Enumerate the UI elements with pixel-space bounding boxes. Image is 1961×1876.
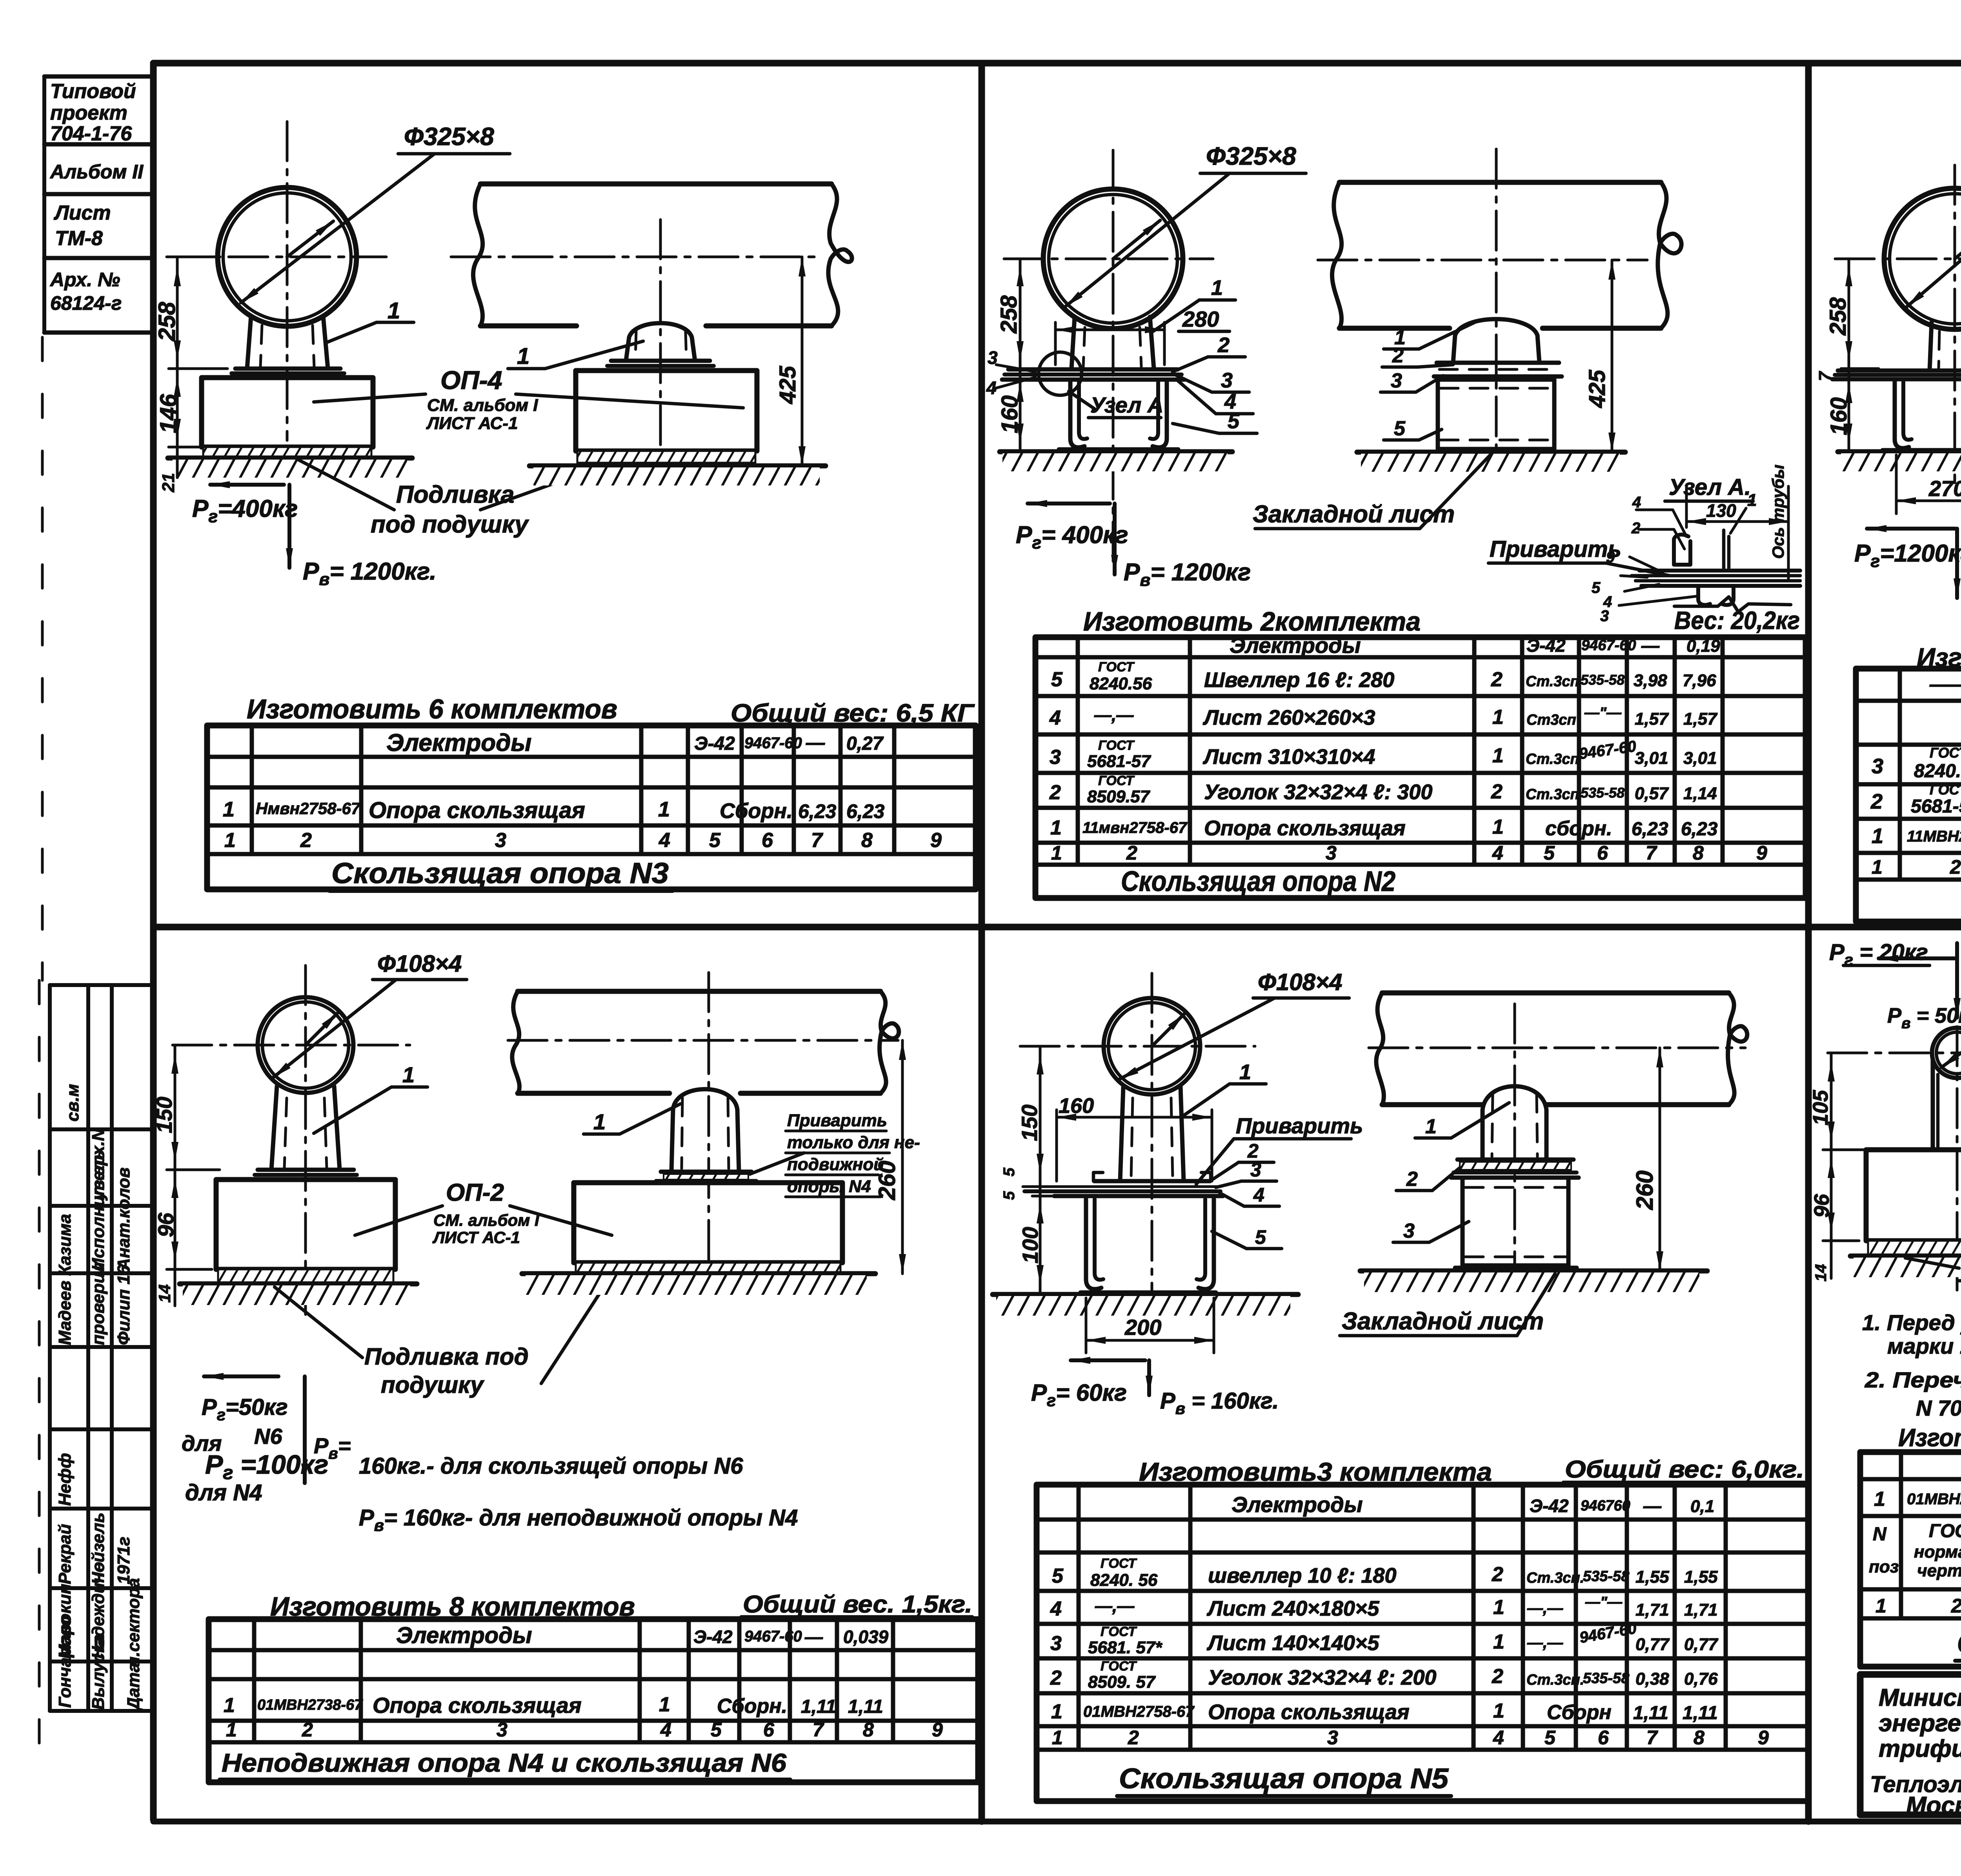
svg-text:———: ——— [1929,673,1961,695]
svg-text:1: 1 [1492,744,1504,767]
dims 150 / 100 [1039,1046,1042,1293]
svg-text:Анат.колов: Анат.колов [114,1167,133,1271]
svg-text:Ф108×4: Ф108×4 [377,951,462,977]
svg-text:3: 3 [495,829,506,852]
forces [204,1374,278,1378]
svg-text:6: 6 [1597,842,1608,864]
svg-text:5: 5 [1228,409,1240,433]
svg-text:Электроды: Электроды [396,1623,532,1648]
svg-text:100: 100 [1018,1227,1042,1263]
svg-text:5: 5 [1592,579,1601,596]
svg-text:3: 3 [1600,607,1609,625]
svg-text:Рекрай: Рекрай [55,1524,75,1584]
svg-text:проект: проект [50,102,127,124]
svg-text:0,77: 0,77 [1684,1635,1719,1654]
tube below [1933,1059,1961,1150]
svg-text:Скользящая опора N2: Скользящая опора N2 [1121,866,1395,897]
svg-text:3: 3 [1050,746,1061,769]
svg-text:704-1-76: 704-1-76 [50,122,132,145]
svg-text:ГОСТ: ГОСТ [1098,738,1135,753]
support pillar [247,316,251,369]
svg-text:3: 3 [1250,1159,1261,1181]
svg-text:—: — [806,733,825,753]
dashed vertical edge line [41,337,44,980]
svg-text:6: 6 [763,1719,775,1741]
svg-text:1,57: 1,57 [1635,709,1669,729]
svg-text:N: N [1873,1524,1887,1545]
plate [1838,369,1961,373]
svg-text:подушку: подушку [381,1372,484,1398]
svg-text:150: 150 [1017,1105,1042,1141]
svg-text:св.м: св.м [63,1084,82,1122]
svg-text:4: 4 [1050,1598,1062,1620]
svg-text:Ф325×8: Ф325×8 [404,122,494,151]
svg-text:ГОСТ: ГОСТ [1929,1521,1961,1542]
svg-text:14: 14 [155,1284,174,1303]
svg-text:Pг=400кг: Pг=400кг [192,495,298,526]
saddle cylinder [1483,1086,1546,1160]
svg-text:9: 9 [930,829,942,852]
svg-text:1: 1 [1051,1700,1062,1723]
svg-text:4: 4 [1632,494,1641,511]
flange w/ weld hatch [661,1170,751,1174]
425 dim [1611,260,1614,452]
svg-text:только для не-: только для не- [787,1133,920,1152]
svg-text:1: 1 [1425,1115,1437,1138]
svg-text:11мвн2758-67: 11мвн2758-67 [1082,819,1188,836]
pipe circle [1104,998,1200,1094]
270 dim [1895,455,1898,514]
svg-text:швеллер 10 ℓ: 180: швеллер 10 ℓ: 180 [1208,1564,1397,1587]
svg-text:1: 1 [1050,816,1062,839]
svg-text:1: 1 [226,1719,237,1741]
svg-text:01МВН2738-67: 01МВН2738-67 [257,1697,363,1713]
pillar legs (short) [1930,322,1932,371]
svg-text:01МВН2758-67: 01МВН2758-67 [1083,1703,1195,1720]
svg-text:2: 2 [1049,781,1061,804]
svg-text:1: 1 [387,298,400,324]
svg-text:6: 6 [1598,1727,1609,1749]
svg-text:Опора скользящая: Опора скользящая [373,1693,582,1718]
svg-text:535-58: 535-58 [1583,1568,1630,1585]
svg-text:1: 1 [1876,1595,1886,1617]
pipe circle [258,997,353,1093]
svg-text:Приварить: Приварить [1490,536,1621,562]
svg-text:Сборн: Сборн [1547,1701,1612,1724]
svg-text:0,19: 0,19 [1686,636,1720,656]
svg-text:—,—: —,— [1094,705,1134,725]
svg-text:1. Перед установкой ОП в полу: 1. Перед установкой ОП в полу сделать на… [1862,1310,1961,1335]
svg-text:5: 5 [1255,1226,1266,1248]
forces [1071,1358,1145,1362]
support block [1438,380,1554,449]
svg-text:Исполнитель: Исполнитель [89,1150,108,1271]
svg-text:4: 4 [1253,1184,1264,1206]
svg-text:Лист 310×310×4: Лист 310×310×4 [1202,745,1375,769]
dim 260 [1659,1048,1661,1271]
svg-text:1: 1 [1239,1060,1251,1084]
svg-text:1: 1 [1747,491,1757,510]
svg-text:1,11: 1,11 [1633,1703,1668,1723]
svg-text:8240. 56: 8240. 56 [1090,1571,1158,1590]
svg-text:6: 6 [762,829,773,852]
grout strip hatched [203,447,371,458]
svg-text:1: 1 [1493,1700,1504,1722]
svg-text:Ст.3сп: Ст.3сп [1526,786,1579,803]
svg-text:2: 2 [1392,344,1404,367]
svg-text:Гончарово: Гончарово [55,1616,75,1708]
svg-text:1,55: 1,55 [1684,1567,1718,1587]
svg-text:Ст.3сп: Ст.3сп [1526,751,1579,767]
svg-text:Подливка под: Подливка под [364,1343,529,1370]
svg-text:ОП-4: ОП-4 [440,365,502,394]
svg-text:Ф108×4: Ф108×4 [1258,969,1342,995]
svg-text:8: 8 [861,829,873,852]
svg-text:энергетики и элек-: энергетики и элек- [1879,1710,1961,1737]
svg-text:Скользящая опора N5: Скользящая опора N5 [1119,1763,1449,1794]
svg-text:1,11: 1,11 [1683,1703,1718,1723]
flange [258,1168,354,1172]
svg-text:Pг= 60кг: Pг= 60кг [1031,1380,1127,1410]
svg-text:200: 200 [1124,1315,1161,1340]
svg-text:2: 2 [1492,1665,1503,1688]
svg-text:Общий вес: 6,0кг.: Общий вес: 6,0кг. [1565,1456,1804,1483]
svg-text:1: 1 [1872,824,1883,848]
svg-text:160: 160 [997,395,1022,433]
svg-text:ЛИСТ АС-1: ЛИСТ АС-1 [426,414,518,433]
svg-text:Дата: Дата [124,1663,143,1711]
base block [576,371,757,451]
panel divider vertical 1 [979,63,985,1821]
svg-text:01МВН2760-67: 01МВН2760-67 [1907,1491,1961,1508]
svg-text:3,98: 3,98 [1634,671,1667,690]
svg-text:—,—: —,— [1095,1596,1135,1616]
svg-text:2: 2 [1050,1667,1062,1689]
svg-text:4: 4 [1049,707,1061,729]
svg-text:270: 270 [1928,476,1961,501]
svg-text:5: 5 [1001,1191,1018,1200]
svg-text:ГОСТ: ГОСТ [1101,1659,1137,1674]
centerlines [167,256,386,258]
svg-text:8509.57: 8509.57 [1087,787,1151,806]
svg-text:Министерство: Министерство [1879,1684,1961,1711]
svg-text:Pв= 160кг- для неподвижной опо: Pв= 160кг- для неподвижной опоры N4 [359,1505,798,1534]
svg-text:Приварить: Приварить [787,1111,887,1130]
panel divider horizontal [153,924,1961,931]
svg-text:3: 3 [1403,1220,1415,1242]
svg-text:ГОСТ: ГОСТ [1930,782,1961,798]
svg-text:0,77: 0,77 [1635,1635,1670,1654]
svg-text:0,57: 0,57 [1635,784,1669,803]
200 dim [1085,1298,1088,1353]
strip boxes [44,75,153,79]
svg-text:258: 258 [996,295,1022,334]
svg-text:5681-57*: 5681-57* [1911,796,1961,817]
svg-text:марки 100: марки 100 [1887,1334,1961,1358]
dims 150/96/14 [174,1045,176,1306]
force arrows [210,483,284,487]
svg-text:105: 105 [1809,1090,1832,1125]
svg-text:21: 21 [159,473,178,493]
svg-text:1: 1 [1492,706,1504,729]
svg-text:Ф325×8: Ф325×8 [1206,142,1296,170]
dims 105/96/14 [1830,1053,1833,1278]
svg-text:258: 258 [1825,297,1851,336]
svg-text:1: 1 [1493,1596,1504,1619]
svg-text:535-58: 535-58 [1581,785,1624,801]
svg-text:ТМ-8: ТМ-8 [55,227,103,250]
ground [993,1292,1298,1297]
svg-text:Э-42: Э-42 [693,1627,733,1647]
svg-text:4: 4 [1493,1727,1504,1749]
svg-text:2: 2 [1950,856,1961,878]
svg-text:1: 1 [659,1693,670,1716]
svg-text:2: 2 [1870,790,1883,813]
svg-text:160кг.- для скользящей опоры N: 160кг.- для скользящей опоры N6 [359,1453,743,1479]
svg-text:0,38: 0,38 [1635,1669,1669,1689]
svg-text:5: 5 [1001,1167,1018,1176]
svg-text:7: 7 [1646,1727,1658,1749]
svg-text:ГОСТ: ГОСТ [1098,660,1135,674]
svg-text:1: 1 [1051,842,1062,864]
svg-text:5: 5 [1052,1565,1064,1587]
svg-text:280: 280 [1182,307,1219,331]
svg-text:под подушку: под подушку [371,511,529,538]
svg-text:Лист: Лист [53,202,111,224]
svg-text:—,—: —,— [1527,1600,1563,1617]
dim 425 [801,257,804,466]
svg-text:опоры N4: опоры N4 [787,1177,871,1196]
svg-text:7: 7 [813,1719,824,1741]
svg-text:Лист 240×180×5: Лист 240×180×5 [1206,1597,1379,1620]
svg-text:3: 3 [1391,369,1402,392]
svg-text:Вылуска: Вылуска [89,1634,108,1710]
svg-text:Э-42: Э-42 [1526,635,1566,656]
pillar legs [1071,317,1075,369]
svg-text:425: 425 [1584,369,1610,408]
svg-text:0,1: 0,1 [1690,1497,1714,1516]
svg-text:Э-42: Э-42 [694,733,735,754]
svg-text:3,01: 3,01 [1683,749,1717,768]
svg-text:Электроды: Электроды [1232,1492,1363,1517]
svg-text:2. Перечень и план расположени: 2. Перечень и план расположения опор смо… [1865,1367,1961,1392]
svg-text:для N4: для N4 [185,1480,262,1505]
svg-text:2: 2 [1492,1563,1503,1586]
svg-text:1: 1 [1493,1631,1504,1653]
svg-text:Скользящая опора N3: Скользящая опора N3 [331,857,669,889]
svg-text:ЛИСТ АС-1: ЛИСТ АС-1 [432,1228,520,1247]
block [1463,1178,1568,1265]
svg-text:6,23: 6,23 [798,800,837,822]
svg-text:N 704- 1- 76 Лист ТМ-2: N 704- 1- 76 Лист ТМ-2 [1916,1396,1961,1420]
svg-text:160: 160 [1826,397,1852,435]
svg-text:Э-42: Э-42 [1530,1496,1569,1516]
svg-text:7: 7 [811,829,823,852]
svg-text:5: 5 [1051,668,1063,691]
svg-text:поз: поз [1869,1557,1899,1576]
svg-text:Ст3сп: Ст3сп [1526,712,1576,728]
svg-text:1: 1 [1874,1488,1885,1511]
pipe circle [1043,189,1183,329]
svg-text:1,11: 1,11 [848,1696,883,1717]
top plates [1008,367,1178,372]
svg-text:—"—: —"— [1584,705,1622,721]
svg-text:СМ. альбом I: СМ. альбом I [427,396,538,415]
saddle [671,1089,739,1172]
svg-text:2: 2 [1491,780,1503,803]
svg-text:1: 1 [517,344,529,369]
flange plate [235,367,340,371]
svg-text:—: — [804,1627,823,1647]
svg-text:0,27: 0,27 [846,733,884,754]
svg-text:6,23: 6,23 [1632,819,1668,840]
svg-text:0,039: 0,039 [843,1627,889,1647]
svg-text:Мадеев Казима: Мадеев Казима [55,1214,75,1345]
svg-text:9: 9 [1758,1727,1769,1749]
svg-text:Узел А: Узел А [1090,393,1163,417]
channel profile [1070,382,1084,447]
svg-text:Уголок 32×32×4 ℓ: 300: Уголок 32×32×4 ℓ: 300 [1204,780,1432,804]
svg-text:—: — [1643,1496,1662,1516]
svg-text:Типовой: Типовой [50,80,136,103]
saddle [1453,319,1539,363]
side view [518,989,880,994]
svg-text:1: 1 [1052,1727,1063,1749]
svg-text:ГОСТ: ГОСТ [1101,1556,1137,1571]
svg-text:1: 1 [1492,816,1504,838]
svg-text:260: 260 [1632,1171,1658,1210]
left dims 258 / 160, small 3/4 [1019,259,1022,452]
svg-text:2: 2 [1126,842,1137,864]
svg-text:Москва 1971г.: Москва 1971г. [1906,1792,1961,1819]
svg-text:2: 2 [1406,1168,1418,1191]
pipe circle [1932,1028,1961,1078]
svg-text:1: 1 [223,798,235,821]
svg-text:1,11: 1,11 [801,1696,836,1717]
svg-text:9: 9 [1606,549,1615,566]
svg-text:1: 1 [593,1109,606,1134]
svg-text:Нефф: Нефф [55,1453,75,1506]
svg-text:—,—: —,— [1527,1634,1563,1651]
dim 260 [901,1040,904,1274]
svg-text:8: 8 [863,1719,874,1741]
svg-text:5: 5 [1394,417,1406,440]
svg-text:4: 4 [1492,842,1503,864]
svg-text:146: 146 [155,394,182,433]
svg-text:Опора скользящая: Опора скользящая [369,798,585,823]
svg-text:8240.56: 8240.56 [1914,761,1961,782]
svg-text:130: 130 [1706,500,1736,521]
svg-text:Опора скользящая: Опора скользящая [1204,816,1406,840]
svg-text:Электроды: Электроды [386,729,531,756]
svg-text:чертеж: чертеж [1917,1561,1961,1580]
svg-text:68124-г: 68124-г [50,292,122,314]
svg-text:Приварить: Приварить [1236,1113,1363,1138]
svg-text:Лист 140×140×5: Лист 140×140×5 [1206,1631,1379,1655]
svg-text:0,76: 0,76 [1684,1669,1718,1689]
svg-text:ГОСТ: ГОСТ [1098,773,1135,788]
rotated signature table [50,985,153,1711]
cross-section: pipe circle [218,187,357,326]
svg-text:Филип 16: Филип 16 [114,1265,133,1345]
svg-text:3: 3 [1327,1727,1338,1749]
svg-text:трификации СССР: трификации СССР [1879,1735,1961,1762]
svg-text:Pг=50кг: Pг=50кг [202,1394,288,1424]
svg-text:2: 2 [1491,668,1503,691]
svg-text:7: 7 [1646,842,1657,864]
svg-text:N6: N6 [254,1424,282,1449]
svg-text:сборн.: сборн. [1545,817,1612,840]
saddle [626,323,695,361]
svg-text:6,23: 6,23 [846,800,885,822]
side view [1382,991,1729,996]
svg-text:6,23: 6,23 [1681,819,1718,840]
svg-text:5681. 57*: 5681. 57* [1088,1638,1162,1657]
svg-text:1,71: 1,71 [1635,1600,1669,1620]
svg-text:5: 5 [1544,1727,1556,1749]
ground [1838,449,1961,454]
svg-text:14: 14 [1812,1264,1830,1282]
svg-text:Арх. №: Арх. № [49,269,120,291]
svg-text:9467-60: 9467-60 [1581,637,1636,654]
flange with dashes [1437,361,1559,365]
svg-text:3: 3 [497,1719,508,1741]
left dims 258 / 7 / 160 [1848,259,1850,452]
svg-text:3,01: 3,01 [1635,749,1668,768]
pipe circle [1884,188,1961,329]
svg-text:ОП-2: ОП-2 [446,1179,504,1206]
280 dim [1054,322,1057,365]
flange plates with weld hatch [1457,1158,1574,1162]
svg-text:1,71: 1,71 [1684,1600,1718,1620]
svg-text:1,55: 1,55 [1635,1567,1669,1587]
svg-text:11МВН2758-67: 11МВН2758-67 [1907,828,1961,845]
svg-text:5: 5 [1544,842,1555,864]
svg-text:Скользящая опора N7: Скользящая опора N7 [1957,1628,1961,1659]
svg-text:Нмвн2758-67: Нмвн2758-67 [256,799,361,818]
svg-text:4: 4 [660,1719,671,1741]
svg-text:96: 96 [153,1212,178,1237]
svg-text:2: 2 [1217,333,1230,357]
svg-text:ч.сектора: ч.сектора [124,1578,143,1667]
ground [1000,449,1232,454]
svg-text:9467-60: 9467-60 [744,734,802,752]
svg-text:1,14: 1,14 [1683,784,1717,803]
svg-text:Лист 260×260×3: Лист 260×260×3 [1202,706,1375,729]
svg-text:подвижной: подвижной [787,1155,884,1174]
ground [1357,450,1625,455]
svg-text:425: 425 [775,365,800,404]
svg-text:Закладной лист: Закладной лист [1342,1308,1544,1335]
svg-text:5681-57: 5681-57 [1087,752,1151,771]
svg-text:Ст.3сп: Ст.3сп [1526,673,1579,690]
svg-text:3: 3 [1221,369,1233,392]
svg-text:Сборн.: Сборн. [717,1695,787,1718]
svg-text:Изготовить 2комплекта: Изготовить 2комплекта [1083,607,1421,636]
flange [611,359,710,363]
vertical dimension 258/146/21 [176,257,179,478]
svg-text:8: 8 [1694,1727,1705,1749]
svg-text:4: 4 [659,829,670,852]
svg-text:3: 3 [1050,1632,1062,1655]
svg-text:Электроды: Электроды [1230,633,1361,658]
svg-text:Опора скользящая: Опора скользящая [1208,1700,1410,1724]
svg-text:СМ. альбом I: СМ. альбом I [433,1211,540,1229]
svg-text:258: 258 [154,302,180,342]
svg-text:8240.56: 8240.56 [1090,674,1152,693]
svg-text:Уголок 32×32×4 ℓ: 200: Уголок 32×32×4 ℓ: 200 [1208,1666,1436,1689]
svg-text:7,96: 7,96 [1683,671,1716,690]
